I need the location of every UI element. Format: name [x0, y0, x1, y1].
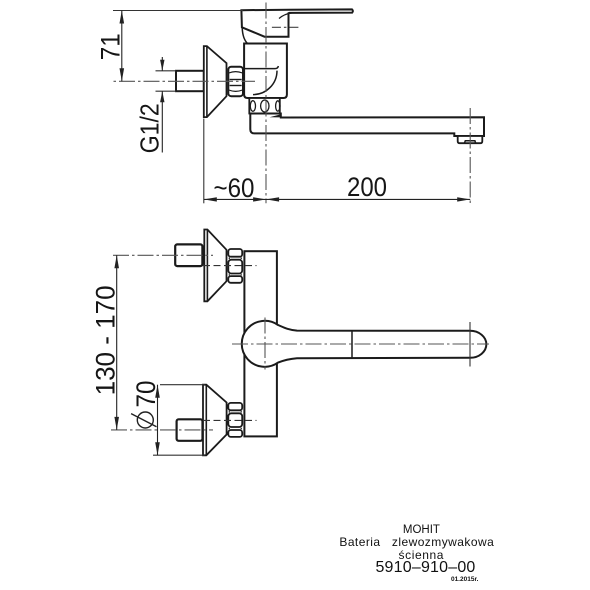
body interior: cartridge line [244, 66, 278, 69]
wire: top stub axis dash-dot [113, 254, 213, 256]
body bar [244, 251, 277, 436]
handle and lever [241, 9, 353, 36]
faucet body (top view) [244, 44, 287, 99]
dimension ~60 / 200 line [204, 198, 470, 200]
wire: ball vertical dash-dot [264, 318, 266, 370]
bottom square stub [177, 419, 203, 441]
wire: handle pivot dash-dot [272, 26, 299, 28]
dimension G1/2 arrows [161, 57, 163, 71]
dimension 71 line [121, 11, 123, 82]
svg-text:130 - 170: 130 - 170 [90, 285, 120, 395]
spout outlet [458, 136, 483, 143]
wire: vertical body centerline dash-dot [265, 3, 267, 204]
bottom escutcheon cone [203, 385, 227, 456]
svg-text:200: 200 [347, 172, 387, 202]
dimension 130-170 line [116, 255, 118, 430]
wire: top inlet axis dash-dot [203, 265, 257, 267]
swivel ring band [249, 98, 279, 114]
diameter symbol [137, 412, 153, 428]
handle detail arc left [242, 28, 247, 44]
wire: G1/2 extension ticks [156, 70, 177, 72]
spout block and tube (top view) [250, 114, 484, 137]
svg-text:G1/2: G1/2 [136, 103, 164, 153]
top escutcheon cone [204, 230, 226, 302]
bottom hex nut [228, 403, 242, 410]
spout tube with ball joint (front view) [242, 321, 487, 367]
ring ellipse left [250, 101, 255, 112]
wire: extension line top of handle (71 dim) [113, 10, 243, 12]
wire: spout axis dash-dot (front view) [232, 343, 489, 345]
dimension dia70 line [157, 385, 159, 456]
tube seam [351, 331, 353, 359]
svg-text:Bateria zlewozmywakowa: Bateria zlewozmywakowa [339, 535, 494, 549]
svg-text:~60: ~60 [214, 173, 255, 203]
outlet notch [465, 141, 476, 143]
body interior: quarter arc [253, 71, 277, 95]
wire: bottom inlet axis dash-dot [203, 419, 257, 421]
top square stub [175, 244, 202, 266]
wedge at tube base [270, 114, 282, 117]
hex nut (top view) [228, 67, 243, 97]
handle detail arc at lever base [279, 13, 292, 19]
escutcheon cone (top view) [204, 46, 227, 117]
ring ellipse right [276, 101, 280, 111]
wire: bottom stub axis dash-dot [111, 429, 213, 431]
wire: pipe axis centerline dash-dot [113, 80, 255, 82]
svg-text:70: 70 [131, 381, 161, 408]
ring ellipse middle [261, 100, 269, 112]
cap seam line [469, 322, 471, 367]
svg-text:71: 71 [95, 33, 125, 60]
dimension dia70 extension lines [160, 384, 205, 386]
svg-text:5910–910–00: 5910–910–00 [375, 559, 475, 576]
wire: extension line spout end dash-dot (x=470.2) [469, 108, 471, 203]
top hex nut [228, 249, 242, 257]
svg-text:01.2015r.: 01.2015r. [451, 576, 479, 583]
pipe stub G1/2 [176, 71, 204, 91]
wire: extension line wall plane (x=203.8) [203, 119, 205, 204]
